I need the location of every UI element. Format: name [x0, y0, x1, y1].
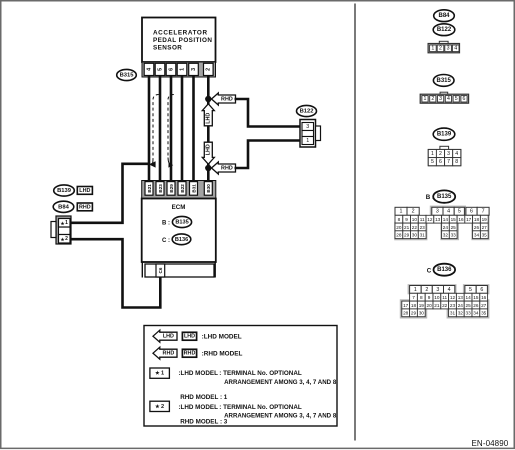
legend star2 entry [150, 401, 170, 411]
legend LHD arrow [153, 330, 177, 342]
svg-text:B23: B23 [158, 184, 163, 193]
svg-text:23: 23 [420, 225, 426, 230]
svg-text:4: 4 [454, 46, 457, 52]
B139 face pin 8 [453, 158, 461, 166]
wire sensor pin 5 to ECM [159, 76, 162, 182]
B84/B122 face pin 3 [445, 45, 452, 52]
svg-text:C :: C : [162, 238, 170, 244]
B315 face pin 4 [445, 96, 451, 102]
svg-text:26: 26 [474, 225, 480, 230]
svg-text:LHD: LHD [184, 334, 195, 340]
connector B139 face view (8-pin) [440, 146, 449, 149]
ECM bottom connector strip [141, 262, 143, 278]
svg-text:34: 34 [473, 311, 479, 316]
svg-text:3: 3 [439, 96, 442, 102]
svg-text::LHD MODEL: :LHD MODEL [202, 334, 242, 341]
svg-text:SENSOR: SENSOR [153, 45, 182, 52]
sensor pin row band [142, 62, 216, 77]
connector label B139 (right column) [433, 128, 455, 140]
svg-text:1: 1 [306, 138, 309, 144]
svg-text:2: 2 [206, 68, 212, 71]
svg-text:12: 12 [427, 217, 433, 222]
sensor pin 6 (connector B315) [166, 63, 176, 75]
svg-text:13: 13 [435, 217, 441, 222]
accelerator pedal position sensor box [142, 18, 216, 63]
svg-text:34: 34 [474, 233, 480, 238]
RHD branch arrow (top) [212, 93, 236, 105]
svg-text:B139: B139 [437, 132, 452, 138]
wire RHD branch top to B122 pin 3 [235, 99, 301, 127]
column divider [354, 4, 356, 441]
connector label B139 (LHD) [54, 185, 75, 196]
svg-text:16: 16 [458, 217, 464, 222]
svg-text:6: 6 [439, 159, 442, 165]
sensor pin 1 (connector B315) [177, 63, 187, 75]
svg-text:PEDAL POSITION: PEDAL POSITION [153, 37, 212, 44]
ECM pin B30 [204, 182, 212, 196]
ECM box U1 [142, 199, 216, 263]
B139 face pin 4 [453, 150, 461, 158]
svg-text:22: 22 [412, 225, 418, 230]
svg-text:B315: B315 [437, 78, 452, 84]
B122 pin 3 [302, 123, 314, 131]
wire sensor pin 3 to ECM [192, 76, 195, 182]
svg-text:5: 5 [469, 287, 472, 293]
svg-text:14: 14 [465, 295, 471, 300]
svg-text:1: 1 [414, 287, 417, 293]
svg-text:B84: B84 [438, 13, 450, 19]
svg-text:8: 8 [398, 217, 401, 222]
svg-text:2: 2 [439, 46, 442, 52]
svg-text:19: 19 [482, 217, 488, 222]
svg-text:32: 32 [458, 311, 464, 316]
svg-text:15: 15 [451, 217, 457, 222]
svg-text:1: 1 [431, 46, 434, 52]
svg-text:19: 19 [419, 303, 425, 308]
svg-text:: TERMINAL No. OPTIONAL: : TERMINAL No. OPTIONAL [219, 370, 302, 377]
svg-text:24: 24 [443, 225, 449, 230]
B122 pin 1 [302, 137, 314, 145]
svg-text:RHD: RHD [221, 165, 233, 171]
legend LHD tag [182, 332, 196, 340]
svg-text:35: 35 [481, 311, 487, 316]
svg-text:ARRANGEMENT AMONG 3, 4, 7 AND: ARRANGEMENT AMONG 3, 4, 7 AND 8 [224, 412, 337, 419]
oval B136 (right column) [434, 264, 456, 276]
connector B315 face view (6-pin) [440, 92, 448, 95]
svg-text:6: 6 [463, 96, 466, 102]
svg-text:18: 18 [474, 217, 480, 222]
LHD arrow (top, pointing up) [202, 104, 214, 126]
RHD branch arrow (bottom) [212, 162, 236, 174]
svg-text:B315: B315 [120, 73, 135, 79]
svg-text::RHD MODEL: :RHD MODEL [202, 351, 243, 358]
B139 face pin 3 [445, 150, 453, 158]
wire RHD branch bottom to B122 pin 1 [235, 141, 301, 169]
svg-text:9: 9 [428, 295, 431, 300]
svg-text:21: 21 [434, 303, 440, 308]
svg-text:3: 3 [191, 68, 197, 71]
svg-text:1: 1 [179, 68, 185, 71]
connector label B84 (right column) [434, 10, 455, 22]
svg-text:LHD: LHD [206, 113, 212, 124]
svg-text:33: 33 [465, 311, 471, 316]
B84/B122 face pin 1 [430, 45, 437, 52]
svg-text:6: 6 [480, 287, 483, 293]
oval B136 (ECM C connector) [172, 234, 191, 245]
svg-text:RHD: RHD [221, 96, 233, 102]
dashed optional-arrangement arrow (left) [153, 95, 159, 160]
ECM pin B29 [167, 182, 175, 196]
connector middle cell [59, 227, 71, 235]
svg-text:LHD: LHD [163, 334, 174, 340]
svg-text:B30: B30 [206, 184, 211, 193]
B139 face pin 6 [436, 158, 444, 166]
svg-text:32: 32 [443, 233, 449, 238]
svg-text:B122: B122 [437, 27, 452, 33]
svg-text:3: 3 [436, 287, 439, 293]
connector B84/B122 face view (4-pin) [439, 41, 448, 44]
B84/B122 face pin 2 [437, 45, 444, 52]
B315 face pin 3 [438, 96, 444, 102]
svg-text:10: 10 [412, 217, 418, 222]
svg-text:EN-04890: EN-04890 [472, 439, 509, 448]
wire sensor pin 6 to ECM [170, 76, 173, 182]
svg-text:B135: B135 [437, 194, 452, 200]
B315 face pin 1 [422, 96, 428, 102]
svg-text:8: 8 [420, 295, 423, 300]
svg-text:5: 5 [157, 68, 163, 71]
svg-text:27: 27 [481, 303, 487, 308]
terminal *2 [59, 235, 71, 244]
svg-text:ACCELERATOR: ACCELERATOR [153, 30, 208, 37]
svg-text:3: 3 [306, 124, 309, 130]
svg-text:RHD: RHD [79, 204, 91, 210]
svg-text:LHD: LHD [206, 144, 212, 155]
dashed optional-arrangement arrow (right) [168, 95, 174, 159]
svg-text:3: 3 [436, 209, 439, 215]
svg-text:22: 22 [442, 303, 448, 308]
sensor pin 3 (connector B315) [189, 63, 199, 75]
svg-text:5: 5 [431, 159, 434, 165]
sensor pin 2 (connector B315) [204, 63, 214, 75]
svg-text:26: 26 [473, 303, 479, 308]
ECM connector B136 face view (35-pin) [400, 284, 490, 318]
B139 face pin 2 [436, 150, 444, 158]
svg-text:: TERMINAL No. OPTIONAL: : TERMINAL No. OPTIONAL [219, 404, 302, 411]
svg-text:30: 30 [419, 311, 425, 316]
oval B135 (ECM B connector) [172, 216, 191, 227]
svg-text:★ 2: ★ 2 [61, 236, 69, 242]
connector B122 body [300, 120, 316, 148]
B139 face pin 7 [445, 158, 453, 166]
svg-text:29: 29 [404, 233, 410, 238]
ECM connector B135 face view (35-pin) [394, 206, 489, 241]
svg-text:24: 24 [458, 303, 464, 308]
svg-text:★ 2: ★ 2 [155, 403, 164, 410]
svg-text:4: 4 [448, 287, 451, 293]
svg-text:RHD: RHD [163, 351, 175, 357]
svg-text:B122: B122 [300, 109, 314, 115]
svg-text:★ 1: ★ 1 [155, 370, 164, 377]
svg-text:1: 1 [431, 151, 434, 157]
svg-text:RHD: RHD [184, 351, 196, 357]
svg-text:31: 31 [450, 311, 456, 316]
svg-text:3: 3 [447, 46, 450, 52]
svg-text:30: 30 [412, 233, 418, 238]
svg-text:B136: B136 [175, 237, 188, 243]
junction node (bottom, RHD branch) [205, 165, 211, 171]
svg-text:11: 11 [442, 295, 447, 300]
svg-text:6: 6 [168, 68, 174, 71]
svg-text:5: 5 [455, 96, 458, 102]
svg-text:1: 1 [424, 96, 427, 102]
svg-text:5: 5 [458, 209, 461, 215]
B315 face pin 2 [430, 96, 436, 102]
RHD model tag [77, 203, 92, 211]
svg-text:27: 27 [482, 225, 488, 230]
svg-text:LHD: LHD [79, 188, 90, 194]
connector label B122 (right column) [433, 24, 455, 36]
connector label B122 [297, 105, 317, 116]
legend star1 entry [150, 368, 170, 378]
svg-text:7: 7 [482, 209, 485, 215]
svg-text:B21: B21 [147, 184, 152, 193]
svg-text:2: 2 [431, 96, 434, 102]
oval B135 (right column) [433, 190, 455, 202]
svg-text:B136: B136 [437, 267, 452, 273]
svg-text:7: 7 [447, 159, 450, 165]
wire star2 to ECM pin C6 [71, 239, 161, 307]
svg-text:28: 28 [403, 311, 409, 316]
svg-text:9: 9 [405, 217, 408, 222]
LHD model tag [77, 187, 92, 195]
svg-text:10: 10 [434, 295, 440, 300]
svg-text:15: 15 [473, 295, 479, 300]
svg-text:ARRANGEMENT AMONG 3, 4, 7 AND: ARRANGEMENT AMONG 3, 4, 7 AND 8 [224, 379, 337, 386]
svg-text:33: 33 [451, 233, 457, 238]
B315 face pin 5 [453, 96, 459, 102]
svg-text:4: 4 [447, 209, 450, 215]
svg-text:B139: B139 [57, 188, 72, 194]
B84/B122 face pin 4 [452, 45, 459, 52]
svg-text:2: 2 [439, 151, 442, 157]
svg-text:B :: B : [162, 221, 170, 227]
svg-text:RHD MODEL : 3: RHD MODEL : 3 [180, 419, 228, 426]
svg-text:RHD MODEL : 1: RHD MODEL : 1 [180, 394, 228, 401]
ECM pin C6 [156, 264, 165, 277]
svg-text:14: 14 [443, 217, 449, 222]
svg-text:25: 25 [451, 225, 457, 230]
svg-text:B29: B29 [169, 184, 174, 193]
svg-text:★ 1: ★ 1 [61, 220, 69, 226]
svg-text:B31: B31 [191, 184, 196, 193]
svg-text:11: 11 [420, 217, 425, 222]
ECM pin B23 [156, 182, 164, 196]
wire star1 to sensor wire 1 [71, 164, 150, 223]
svg-text:ECM: ECM [172, 204, 186, 211]
legend RHD arrow [153, 347, 177, 359]
legend box [144, 326, 337, 427]
terminal *1 [59, 219, 71, 228]
svg-text:C6: C6 [158, 267, 163, 273]
legend RHD tag [182, 349, 196, 357]
svg-text:20: 20 [426, 303, 432, 308]
svg-text:8: 8 [455, 159, 458, 165]
svg-text:31: 31 [420, 233, 426, 238]
LHD arrow (bottom, pointing down) [202, 142, 214, 164]
ECM pin B31 [190, 182, 198, 196]
svg-text:35: 35 [482, 233, 488, 238]
wire sensor pin 1 to ECM [181, 76, 184, 182]
svg-text:3: 3 [447, 151, 450, 157]
svg-text:29: 29 [411, 311, 417, 316]
svg-text:17: 17 [466, 217, 472, 222]
svg-text:17: 17 [403, 303, 409, 308]
svg-text:25: 25 [465, 303, 471, 308]
svg-text:20: 20 [396, 225, 402, 230]
svg-text:12: 12 [450, 295, 456, 300]
svg-text:18: 18 [411, 303, 417, 308]
B139 face pin 5 [428, 158, 436, 166]
ECM pin row band [142, 181, 216, 199]
wire sensor pin 2 to ECM [207, 76, 210, 182]
svg-text:23: 23 [450, 303, 456, 308]
B315 face pin 6 [461, 96, 467, 102]
svg-text:4: 4 [146, 68, 152, 71]
svg-text:21: 21 [404, 225, 410, 230]
sensor pin 4 (connector B315) [144, 63, 154, 75]
svg-text:4: 4 [455, 151, 458, 157]
svg-text:13: 13 [458, 295, 464, 300]
B139 face pin 1 [428, 150, 436, 158]
ECM pin B22 [178, 182, 186, 196]
svg-text::LHD MODEL: :LHD MODEL [178, 404, 218, 411]
B122 middle cell [302, 131, 314, 137]
svg-text:4: 4 [447, 96, 450, 102]
connector label B315 [117, 69, 137, 80]
svg-text:B84: B84 [58, 204, 69, 210]
ECM pin B21 [145, 182, 153, 196]
svg-text:2: 2 [425, 287, 428, 293]
svg-text:2: 2 [412, 209, 415, 215]
svg-text::LHD MODEL: :LHD MODEL [178, 370, 218, 377]
svg-text:28: 28 [396, 233, 402, 238]
connector B139/B84 body (left) [56, 216, 71, 244]
connector label B84 (RHD) [53, 201, 74, 212]
junction node (top, RHD branch) [205, 96, 211, 102]
svg-text:6: 6 [470, 209, 473, 215]
svg-text:B135: B135 [175, 220, 188, 226]
connector label B315 (right column) [433, 75, 454, 87]
sensor pin 5 (connector B315) [155, 63, 165, 75]
wire sensor pin 4 to ECM [148, 76, 151, 182]
svg-text:7: 7 [412, 295, 415, 300]
svg-text:1: 1 [400, 209, 403, 215]
svg-text:16: 16 [481, 295, 487, 300]
svg-text:B22: B22 [180, 184, 185, 193]
